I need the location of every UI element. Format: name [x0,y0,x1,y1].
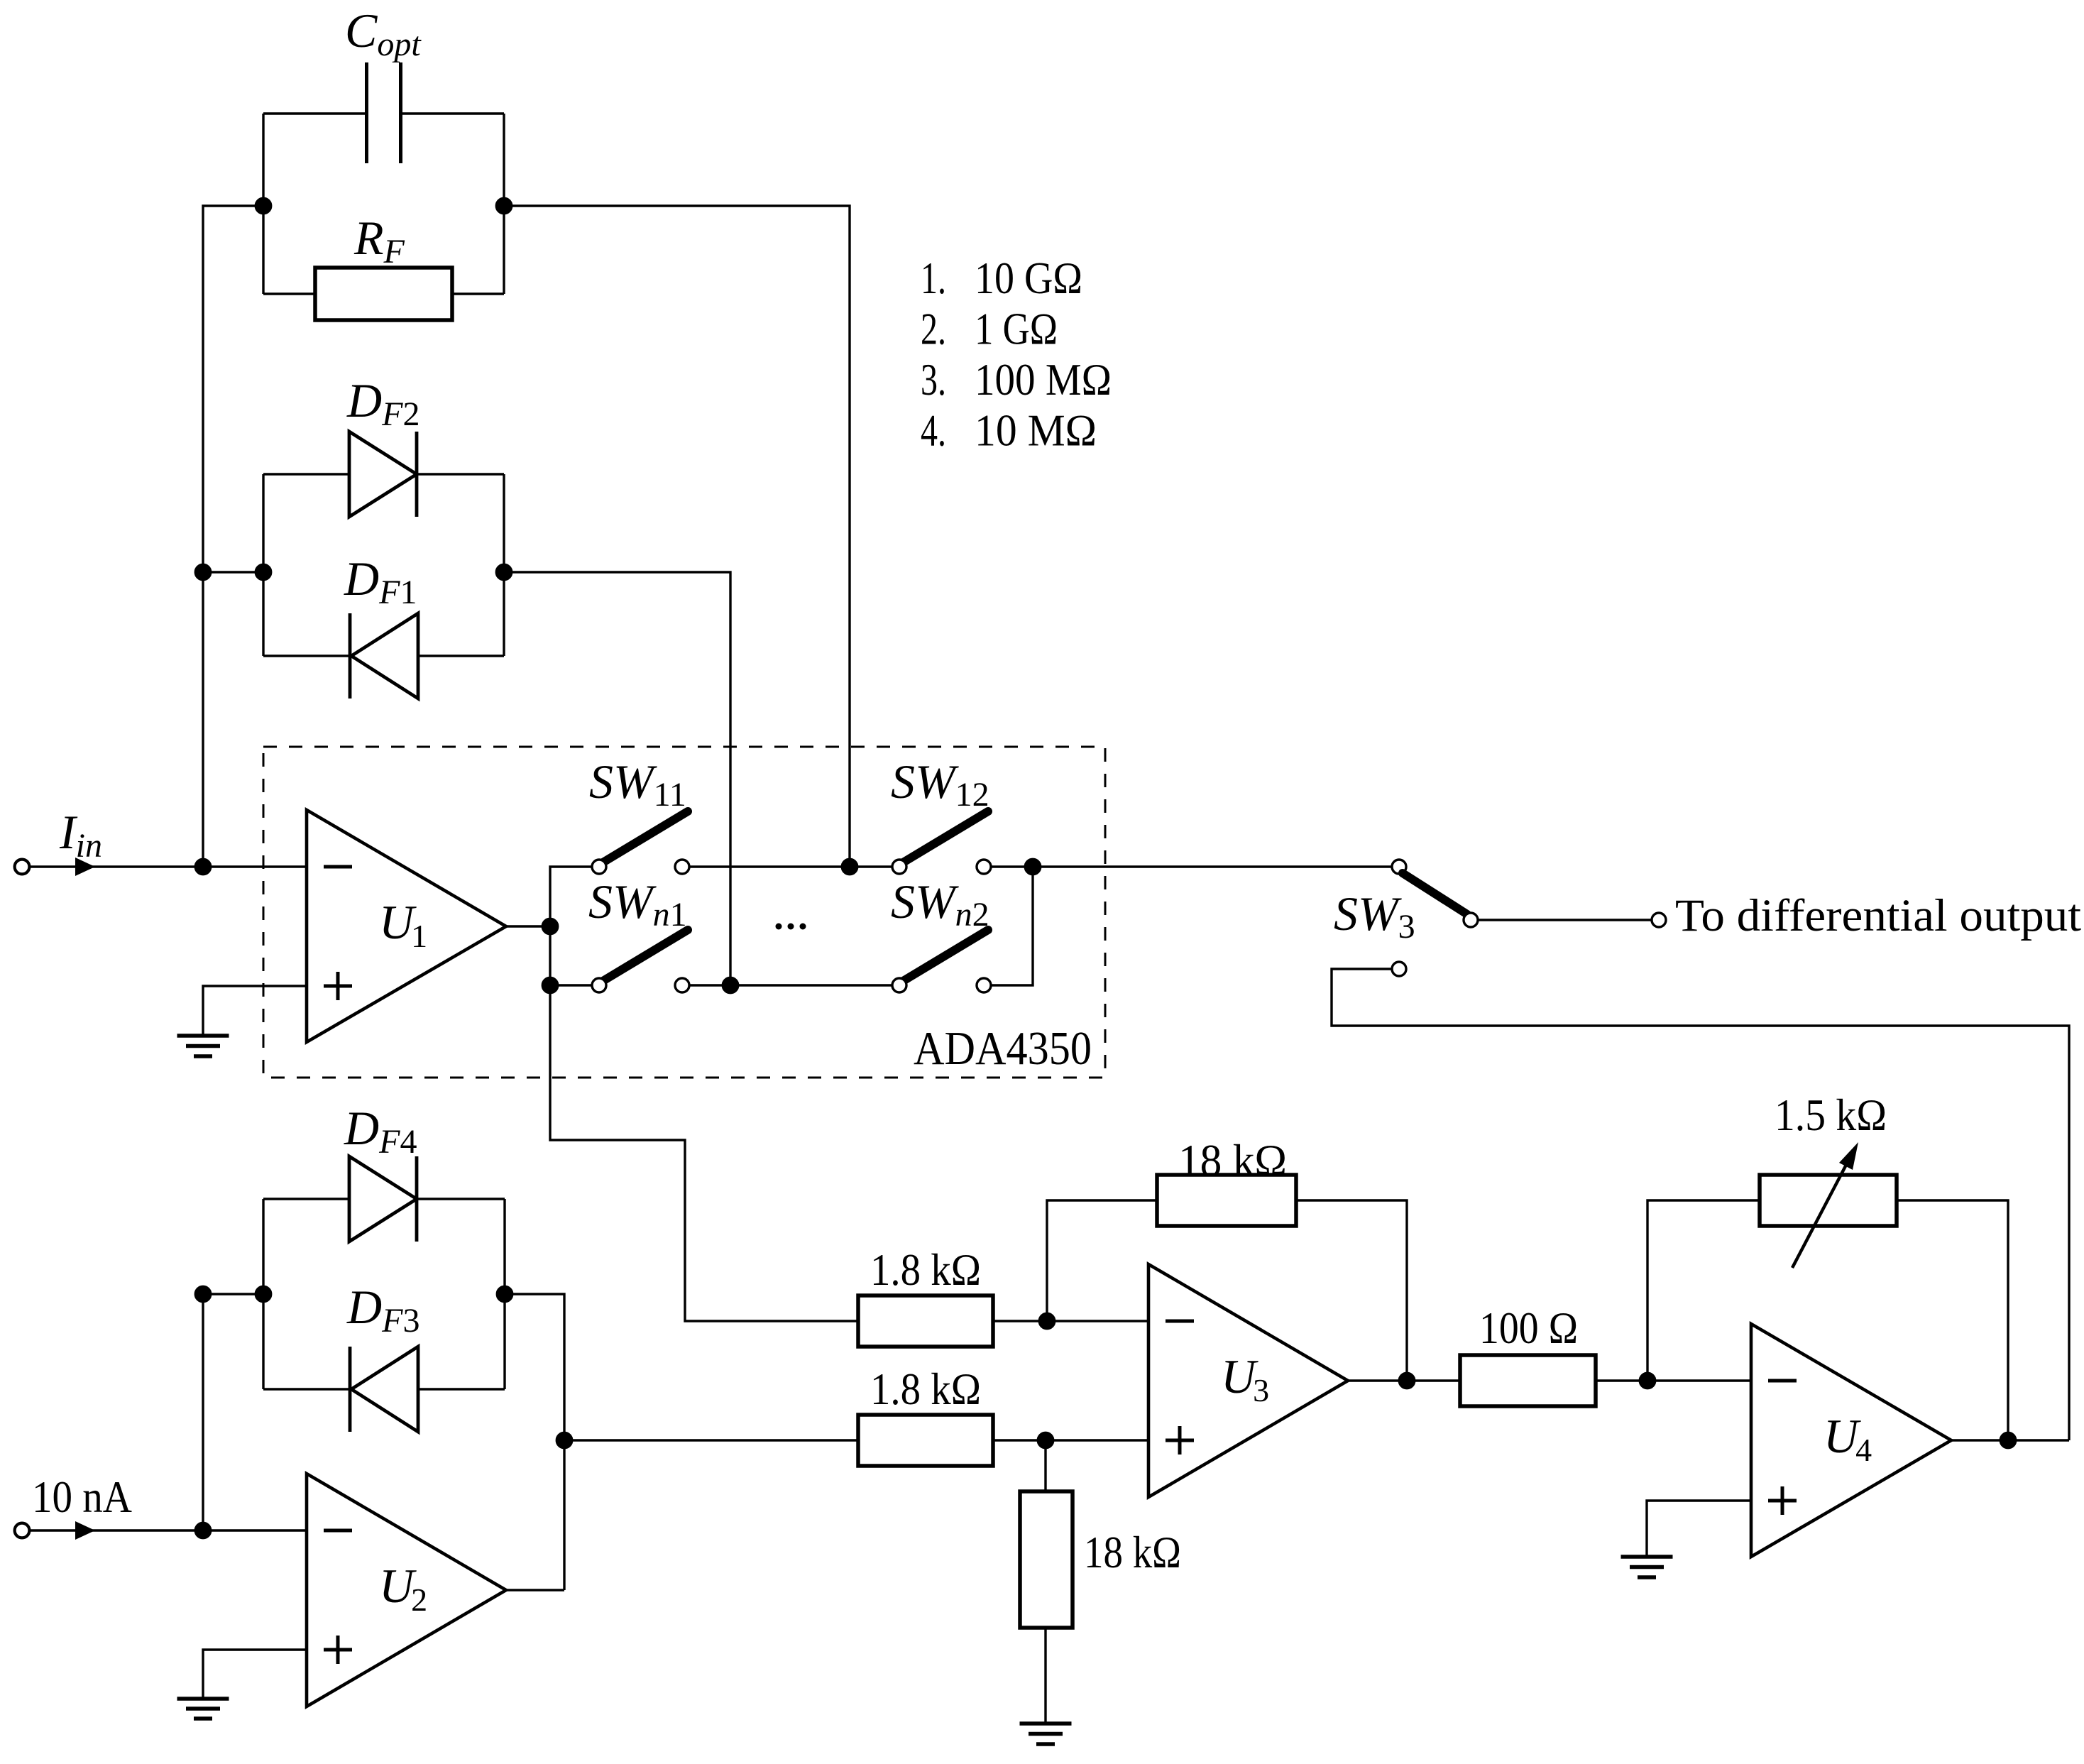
svg-text:1.8 kΩ: 1.8 kΩ [870,1244,981,1295]
diode DF4 triangle [349,1156,417,1242]
switch SW3 top terminal [1392,860,1406,874]
capacitor C1 left wire [263,112,365,114]
wire down to 18k shunt [1044,1440,1046,1491]
svg-text:10 GΩ: 10 GΩ [975,253,1082,303]
switch SW12 lever [901,811,988,864]
resistor 18k feedback body [1157,1175,1296,1226]
junction dot (286,2156) [195,1523,210,1538]
svg-text:1.5 kΩ: 1.5 kΩ [1775,1090,1887,1140]
diode DF1 cathode bar [349,613,352,699]
wire U2 feedback rail [505,1294,564,1590]
svg-text:10 nA: 10 nA [32,1472,132,1522]
junction dot (286,1823) [195,1286,210,1301]
wire 1.8k top to U3 minus [993,1320,1148,1322]
svg-text:18 kΩ: 18 kΩ [1178,1135,1287,1185]
ground under U2 [177,1699,229,1719]
wire output rail down to lower stage [550,867,858,1321]
wire SW3 lower throw feedback from U4 [1332,969,2069,1440]
diode DF2 right wire [417,473,504,475]
ellipsis dots between switches [776,924,806,930]
switch SWn2 left contact [892,978,906,992]
wire U3 output [1348,1379,1460,1381]
switch SWn2 lever [901,930,988,982]
wire U4 output [1951,1439,2069,1441]
switch SW11 lever [600,811,688,864]
resistor RF body [315,268,452,320]
junction dot (1473,2029) [1038,1432,1053,1447]
wire diode node to SWn1 column [504,572,730,985]
diode DF3 cathode bar [349,1347,352,1432]
svg-text:100 MΩ: 100 MΩ [975,354,1112,405]
input terminal 10nA [15,1523,30,1538]
junction dot (775,1305) [542,919,557,933]
diode DF1 right wire [418,654,504,657]
wire SWn1 stub [550,984,592,986]
diode DF4 left wire [263,1198,349,1200]
op-amp U3 minus sign [1166,1320,1194,1323]
wire SW3 to output terminal [1478,919,1652,921]
diode DF1 triangle [351,613,418,699]
junction dot (1455,1221) [1025,859,1040,874]
wire U1 non-inverting input to ground [203,986,307,1035]
ground under U4 [1621,1557,1673,1577]
op-amp U4 plus sign [1768,1486,1797,1515]
diode DF3 left wire [263,1388,350,1390]
junction dot (371,1823) [256,1286,270,1301]
wire diode block 1 left vertical [262,474,264,656]
wire 18k feedback right leg [1296,1200,1407,1381]
op-amp U2 plus sign [324,1636,352,1664]
dashed box ADA4350 [263,747,1105,1078]
resistor RF left stub [263,292,315,295]
switch SW3 lever [1403,873,1467,914]
current arrow Iin [75,858,95,876]
junction dot (710,806) [496,564,511,579]
junction dot (1029,1388) [723,977,737,992]
variable resistor arrow [1792,1162,1848,1268]
node B dot (710,290) [496,198,511,213]
op-amp U1 minus sign [324,865,352,869]
op-amp U1 plus sign [324,972,352,1000]
op-amp U4 triangle [1751,1324,1951,1557]
op-amp U4 minus sign [1768,1379,1797,1383]
switch SWn1 left contact [592,978,606,992]
node A dot (371,290) [256,198,270,213]
wire 1.5k feedback right leg [1897,1200,2008,1440]
wire 1.5k feedback left leg [1647,1200,1760,1381]
svg-text:1 GΩ: 1 GΩ [975,304,1058,354]
wire diode block 1 right vertical [503,474,505,656]
wire 1.8k bottom to U3 plus [993,1439,1148,1441]
wire 18k shunt to ground [1044,1628,1046,1724]
switch SWn1 right contact [675,978,689,992]
junction dot (795,2029) [556,1432,571,1447]
wire diode block 2 left vertical [262,1199,264,1389]
diode DF1 left wire [263,654,350,657]
capacitor C1 plates (Copt) [367,62,401,163]
capacitor C1 right wire [402,112,504,114]
wire C/R right vertical [503,114,505,294]
ground under U1 [177,1036,229,1056]
wire 100ohm to U4 minus [1596,1379,1751,1381]
wire from C/R node to SW12 column [504,206,850,867]
op-amp U1 triangle [307,810,506,1042]
wire SWn1 to SWn2 [689,984,892,986]
diode DF3 right wire [418,1388,505,1390]
op-amp U2 triangle [307,1474,506,1707]
diode DF2 cathode bar [415,432,419,517]
junction dot (286,806) [195,564,210,579]
wire diode block 2 right vertical [503,1199,505,1389]
terminal to differential output [1652,913,1666,927]
junction dot (2829,2029) [2000,1432,2015,1447]
switch SW11 right contact [675,860,689,874]
switch SW12 right contact [977,860,991,874]
wire U1 output [506,925,550,927]
wire 10nA input to U2 [29,1529,307,1531]
current arrow 10nA [75,1521,95,1540]
wire SWn2 up to output row [991,867,1033,985]
wire C/R left vertical [262,114,264,294]
wire U2 non-inverting input to ground [203,1650,307,1698]
wire U2 output [506,1589,564,1591]
wire left rail of U1 inverting node [203,206,263,867]
svg-text:ADA4350: ADA4350 [914,1022,1092,1075]
op-amp U3 triangle [1148,1264,1348,1497]
op-amp U2 minus sign [324,1529,352,1533]
junction dot (711,1823) [497,1286,512,1301]
wire U2 node to 1.8k bottom [564,1439,858,1441]
resistor 1.8k top body [858,1295,993,1347]
junction dot (775,1388) [542,977,557,992]
wire left rail of U2 inverting node [202,1294,204,1530]
junction dot (2321,1945) [1640,1373,1655,1388]
ground under 18k shunt [1020,1724,1072,1744]
switch SW3 lower throw contact [1392,962,1406,976]
switch SW11 left contact [592,860,606,874]
switch SW3 common contact [1464,913,1478,927]
wire U4 non-inverting input to ground [1647,1501,1751,1557]
input terminal Iin [15,860,30,875]
wire 18k feedback left leg [1047,1200,1157,1321]
diode DF2 left wire [263,473,349,475]
resistor 18k shunt body [1020,1491,1073,1628]
diode DF4 right wire [417,1198,505,1200]
resistor 1.8k bottom body [858,1415,993,1466]
switch SWn1 lever [600,930,688,982]
junction dot (1475,1861) [1039,1313,1054,1328]
svg-text:18 kΩ: 18 kΩ [1084,1527,1181,1577]
junction dot (371,806) [256,564,270,579]
junction dot (1982,1945) [1399,1373,1414,1388]
wire node row to diode block [203,571,263,573]
op-amp U3 plus sign [1166,1426,1194,1455]
wire SW11 to SW12 [689,865,892,867]
wire node row 2 [203,1293,263,1295]
junction dot (1197,1221) [842,859,857,874]
resistor RF right stub [452,292,504,295]
svg-text:1.8 kΩ: 1.8 kΩ [870,1364,981,1414]
svg-text:1.: 1. [921,253,946,303]
wire SW12 to SW3 [991,865,1392,867]
switch SW12 left contact [892,860,906,874]
diode DF2 triangle [349,432,417,517]
svg-text:100 Ω: 100 Ω [1479,1303,1578,1353]
svg-text:4.: 4. [921,405,946,456]
svg-text:10 MΩ: 10 MΩ [975,405,1097,456]
resistor 100ohm body [1460,1355,1596,1406]
diode DF3 triangle [351,1347,418,1432]
junction dot (286,1221) [195,859,210,874]
svg-text:To differential output: To differential output [1675,890,2081,941]
svg-text:3.: 3. [921,354,946,405]
diode DF4 cathode bar [415,1156,419,1242]
switch SWn2 right contact [977,978,991,992]
svg-text:2.: 2. [921,304,946,354]
wire Iin to U1 inverting input [29,865,307,867]
resistor 1.5k variable body [1760,1175,1897,1226]
